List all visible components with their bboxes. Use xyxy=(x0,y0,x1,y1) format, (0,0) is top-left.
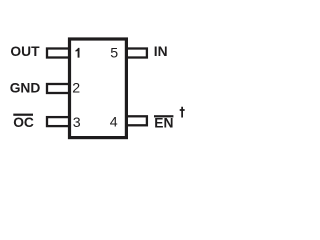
overline EN xyxy=(154,115,173,117)
svg-text:OC: OC xyxy=(13,115,34,130)
IC body U1 xyxy=(70,39,127,138)
svg-text:IN: IN xyxy=(154,44,168,59)
pin number 1 xyxy=(76,48,80,58)
svg-text:4: 4 xyxy=(110,114,118,130)
pin 5 lead xyxy=(126,49,146,58)
svg-text:2: 2 xyxy=(72,81,80,97)
svg-text:GND: GND xyxy=(10,81,41,96)
pin 1 lead xyxy=(47,49,70,58)
pin 2 lead xyxy=(47,84,70,93)
svg-text:5: 5 xyxy=(110,46,118,62)
dagger footnote mark xyxy=(180,107,185,118)
svg-text:OUT: OUT xyxy=(10,44,40,59)
svg-text:3: 3 xyxy=(73,115,81,131)
pin 3 lead xyxy=(47,117,70,126)
overline OC xyxy=(13,114,33,116)
pin 4 lead xyxy=(126,116,146,125)
svg-text:EN: EN xyxy=(154,116,173,131)
